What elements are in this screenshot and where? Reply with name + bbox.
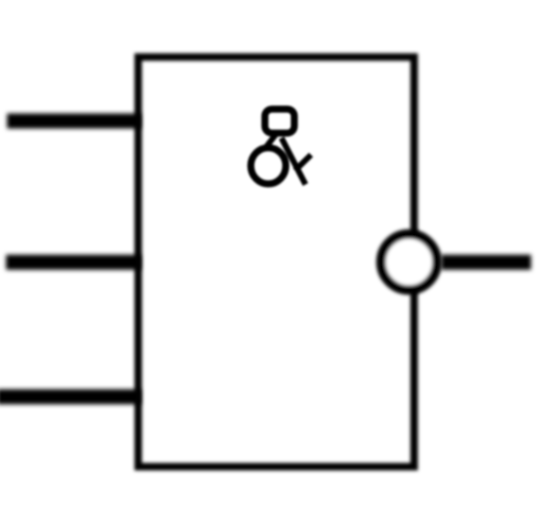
inversion bubble [381,234,437,290]
& label [251,109,311,184]
output wire [441,255,531,270]
and-gate body U1 [138,57,414,467]
input wire 2 [6,255,141,270]
input wire 3 [0,389,141,404]
input wire 1 [7,114,141,129]
